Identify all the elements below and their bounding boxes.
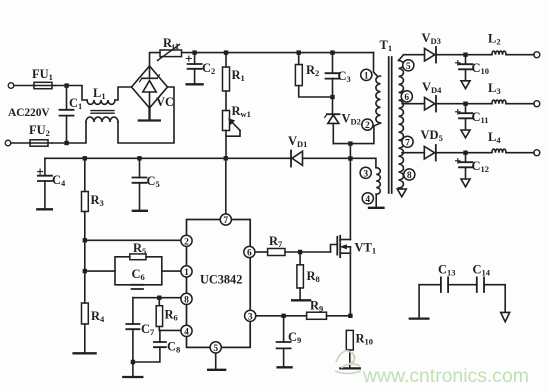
capacitor C4 (electrolytic)	[38, 158, 52, 208]
transformer T1 primary	[374, 53, 381, 126]
capacitor C5	[133, 158, 147, 209]
ground (C7)	[123, 376, 142, 378]
svg-text:VD4: VD4	[422, 80, 442, 95]
inductor L2	[492, 51, 506, 55]
node pin2L	[83, 238, 87, 242]
pin 4	[181, 325, 192, 337]
capacitor C12 (electrolytic)	[456, 153, 473, 179]
ground (C2)	[187, 83, 203, 85]
pin 5	[210, 342, 221, 354]
svg-text:6: 6	[247, 249, 252, 259]
svg-text:5: 5	[406, 62, 411, 72]
svg-text:L1: L1	[93, 86, 106, 101]
wire pin2	[85, 239, 182, 241]
svg-text:1: 1	[184, 268, 189, 278]
svg-text:R4: R4	[91, 309, 105, 324]
ground (R8)	[292, 299, 310, 301]
capacitor C8	[133, 330, 166, 362]
svg-text:4: 4	[365, 195, 370, 205]
node drainX	[348, 156, 352, 160]
wire row3	[402, 152, 534, 154]
wire	[11, 142, 30, 144]
resistor R6	[156, 298, 162, 331]
svg-text:C2: C2	[202, 61, 215, 76]
ground (C5)	[133, 210, 147, 212]
diode VD3	[425, 47, 437, 63]
svg-text:L4: L4	[488, 130, 501, 145]
pin 1	[181, 266, 192, 278]
svg-text:R5: R5	[133, 241, 146, 256]
resistor R8	[297, 252, 304, 299]
terminal out2	[534, 101, 540, 107]
node clampX	[348, 141, 352, 145]
svg-text:C3: C3	[338, 69, 351, 84]
wire clamp	[333, 126, 374, 144]
R5/C6 network frame	[115, 257, 162, 285]
ground (C9)	[278, 366, 292, 368]
transformer pin 3	[360, 167, 371, 179]
resistor R4	[82, 303, 89, 352]
node C7C8	[131, 360, 135, 364]
svg-text:VD3: VD3	[422, 31, 441, 46]
wire	[118, 87, 174, 143]
transformer pin 8	[404, 169, 415, 181]
resistor R7	[268, 249, 331, 256]
wire drain	[349, 144, 351, 240]
svg-text:FU1: FU1	[32, 67, 53, 82]
thermistor Rt1	[158, 45, 182, 61]
svg-text:R3: R3	[91, 193, 104, 208]
terminal input N	[5, 140, 11, 146]
svg-text:6: 6	[404, 93, 409, 103]
ground (bridge negative)	[139, 108, 160, 121]
svg-text:2: 2	[184, 237, 189, 247]
wire + ground (C13 left)	[418, 285, 420, 317]
svg-text:C11: C11	[472, 110, 489, 125]
pin 3	[245, 310, 256, 322]
svg-text:2: 2	[365, 121, 370, 131]
diode VD4	[425, 96, 437, 112]
svg-text:1: 1	[364, 71, 369, 81]
wire row1	[404, 54, 535, 56]
svg-text:C14: C14	[473, 263, 491, 278]
capacitor C14	[477, 277, 484, 292]
pin circles of UC3842	[181, 60, 415, 354]
svg-text:UC3842: UC3842	[200, 273, 242, 287]
svg-text:C1: C1	[69, 96, 82, 111]
terminal out3	[534, 150, 540, 156]
transformer pin 5	[403, 60, 414, 72]
node pin7	[224, 156, 228, 160]
capacitor C7	[126, 298, 139, 376]
wire (top rail)	[182, 52, 374, 54]
svg-text:C6: C6	[132, 267, 145, 282]
wire row2	[402, 103, 534, 105]
node C5top	[137, 156, 141, 160]
diode VD5	[424, 145, 436, 161]
svg-text:R1: R1	[232, 68, 245, 83]
wire (VCC rail)	[45, 158, 376, 167]
svg-text:L3: L3	[488, 81, 501, 96]
svg-text:C10: C10	[472, 61, 490, 76]
svg-text:5: 5	[213, 344, 218, 354]
svg-text:4: 4	[184, 327, 189, 337]
wire pin4	[159, 329, 181, 331]
svg-text:3: 3	[248, 312, 253, 322]
svg-text:C13: C13	[438, 263, 456, 278]
svg-text:FU2: FU2	[29, 123, 50, 138]
transformer T1 secondary	[399, 55, 404, 189]
fuse FU1	[33, 82, 55, 88]
resistor R10	[346, 330, 353, 366]
wire + ground arrow (C14 right)	[504, 285, 506, 312]
wire	[14, 85, 33, 87]
op-amp U1 box UC3842	[187, 220, 251, 348]
inductor L3	[492, 100, 506, 104]
fuse FU2	[30, 140, 52, 146]
wire	[150, 53, 161, 66]
capacitor C6	[132, 285, 143, 289]
terminal input L	[8, 83, 14, 89]
wire pin6	[255, 251, 268, 253]
wire	[55, 86, 87, 101]
svg-text:VT1: VT1	[355, 241, 377, 256]
svg-text:VD5: VD5	[421, 128, 443, 143]
svg-text:C8: C8	[167, 340, 180, 355]
ground (R4)	[74, 352, 96, 354]
transformer core	[389, 57, 392, 193]
node A1	[64, 83, 68, 87]
capacitor C9	[277, 316, 291, 366]
wire source	[349, 247, 351, 316]
svg-text:C9: C9	[288, 330, 301, 345]
svg-text:7: 7	[223, 216, 228, 226]
capacitor C10 (electrolytic)	[456, 55, 473, 81]
pin 2	[181, 235, 192, 247]
node row1	[463, 53, 467, 57]
potentiometer Rw1	[223, 111, 241, 159]
svg-text:T1: T1	[380, 38, 393, 53]
transformer pin 2	[362, 119, 373, 131]
resistor R3	[82, 158, 89, 303]
svg-text:AC220V: AC220V	[8, 107, 50, 119]
svg-text:C7: C7	[141, 322, 155, 337]
resistor R5	[130, 254, 146, 260]
svg-text:C4: C4	[52, 173, 66, 188]
pin 6	[244, 246, 255, 258]
svg-text:Rw1: Rw1	[232, 104, 251, 119]
capacitor C13	[441, 277, 448, 292]
transformer pin 4	[362, 193, 373, 205]
pin 8	[181, 293, 192, 305]
node snub	[330, 95, 334, 99]
pin 7	[220, 214, 231, 226]
node R3top	[83, 156, 87, 160]
svg-text:C12: C12	[472, 159, 490, 174]
ground arrow (C11)	[461, 130, 470, 138]
zener VD2	[325, 114, 340, 143]
bridge rectifier VC	[132, 66, 168, 108]
node A2	[64, 141, 68, 145]
ground (pin5)	[208, 369, 225, 371]
svg-text:VD2: VD2	[342, 112, 361, 127]
node row2	[463, 102, 467, 106]
wire pin8	[133, 297, 181, 299]
svg-text:C5: C5	[147, 174, 160, 189]
svg-text:Rt1: Rt1	[163, 36, 179, 51]
terminal out1	[534, 52, 540, 58]
capacitor C1	[60, 86, 74, 144]
capacitor C11 (electrolytic)	[456, 104, 473, 130]
ground arrow (C12)	[461, 179, 470, 187]
svg-text:R9: R9	[310, 299, 323, 314]
wire pin3	[255, 315, 307, 317]
node C3top	[330, 50, 334, 54]
node row3	[463, 151, 467, 155]
svg-text:8: 8	[407, 171, 412, 181]
svg-text:R6: R6	[165, 308, 178, 323]
wire	[52, 122, 86, 143]
wire pin1	[85, 270, 182, 272]
capacitor C3	[326, 53, 340, 114]
svg-text:R7: R7	[269, 234, 283, 249]
svg-text:R8: R8	[307, 269, 320, 284]
node B2	[224, 50, 228, 54]
transformer pin 6	[401, 91, 412, 103]
capacitor C2 (electrolytic)	[186, 53, 201, 83]
diode VD1	[291, 151, 303, 167]
inductor L1 (common-mode choke)	[86, 100, 118, 122]
ground (R10)	[340, 367, 360, 369]
node pin1L	[83, 269, 87, 273]
node R2top	[297, 50, 301, 54]
node source	[348, 314, 352, 318]
wire pin7	[225, 158, 227, 214]
wire	[115, 87, 132, 100]
svg-text:8: 8	[184, 295, 189, 305]
svg-text:7: 7	[405, 138, 410, 148]
svg-text:R10: R10	[356, 332, 374, 347]
svg-text:R2: R2	[306, 63, 319, 78]
watermark logo scribble	[335, 351, 361, 374]
node B1	[192, 50, 196, 54]
ground arrow (C10)	[461, 81, 470, 89]
ground (C4)	[37, 208, 52, 210]
svg-text:3: 3	[363, 169, 368, 179]
wire C13C14	[419, 284, 505, 286]
svg-text:VC: VC	[156, 95, 174, 109]
ground arrow (secondary bottom)	[397, 189, 406, 197]
resistor R1	[223, 53, 230, 111]
ground (aux)	[369, 207, 384, 209]
transformer pin 1	[361, 69, 372, 81]
svg-text:www.cntronics.com: www.cntronics.com	[362, 365, 529, 387]
node gate	[298, 250, 302, 254]
inductor L4	[492, 149, 506, 153]
node R6top	[157, 296, 161, 300]
transistor Q1 VT1 (MOSFET)	[331, 236, 351, 257]
resistor R2	[295, 53, 332, 97]
transformer T1 aux winding	[376, 168, 380, 207]
svg-text:L2: L2	[488, 32, 501, 47]
svg-text:VD1: VD1	[288, 134, 307, 149]
transformer pin 7	[402, 136, 413, 148]
wire pin5 gnd	[215, 353, 217, 369]
node C9top	[281, 314, 285, 318]
resistor R9	[307, 312, 350, 319]
